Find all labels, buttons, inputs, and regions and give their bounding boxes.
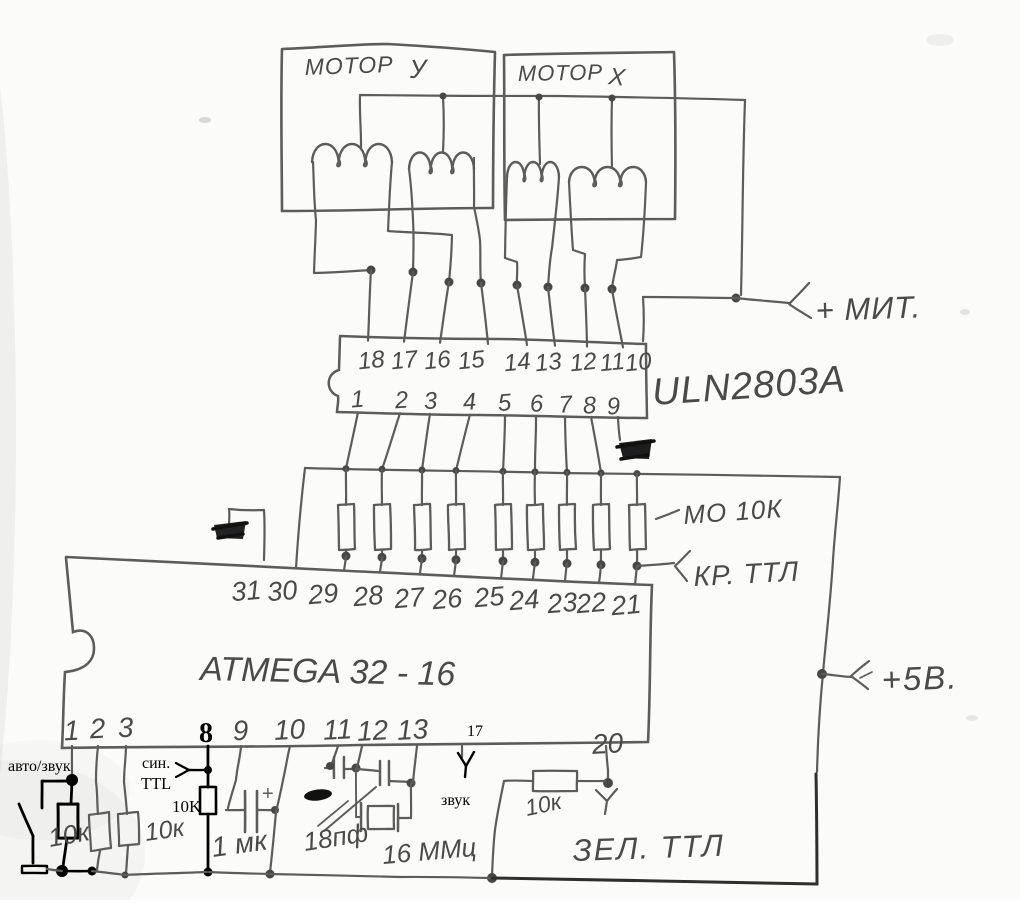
svg-text:27: 27 xyxy=(392,582,427,615)
svg-text:11: 11 xyxy=(322,713,353,745)
svg-text:ATMEGA 32 - 16: ATMEGA 32 - 16 xyxy=(198,650,456,693)
svg-text:18: 18 xyxy=(357,346,387,376)
svg-text:звук: звук xyxy=(441,792,470,809)
svg-text:ЗЕЛ. ТТЛ: ЗЕЛ. ТТЛ xyxy=(572,828,725,868)
svg-text:26: 26 xyxy=(430,583,465,616)
svg-text:31: 31 xyxy=(230,575,263,608)
svg-text:10к: 10к xyxy=(143,814,187,847)
svg-text:16: 16 xyxy=(423,346,453,376)
svg-text:11: 11 xyxy=(598,348,626,377)
svg-text:3: 3 xyxy=(117,712,135,744)
svg-text:МОТОР: МОТОР xyxy=(304,51,394,80)
svg-text:25: 25 xyxy=(472,581,507,614)
svg-text:авто/звук: авто/звук xyxy=(8,758,71,775)
svg-text:2: 2 xyxy=(88,713,107,745)
svg-text:+: + xyxy=(262,783,274,805)
svg-text:10: 10 xyxy=(624,348,654,378)
svg-text:13: 13 xyxy=(534,348,564,378)
svg-text:17: 17 xyxy=(390,346,421,376)
svg-text:15: 15 xyxy=(457,346,487,376)
svg-text:14: 14 xyxy=(503,348,532,378)
svg-text:12: 12 xyxy=(356,714,389,747)
svg-text:21: 21 xyxy=(609,589,643,622)
svg-text:1: 1 xyxy=(350,386,365,414)
svg-text:4: 4 xyxy=(462,388,477,416)
svg-text:TTL: TTL xyxy=(141,774,171,793)
svg-text:5: 5 xyxy=(497,389,513,417)
svg-text:1: 1 xyxy=(63,715,80,747)
svg-text:9: 9 xyxy=(232,715,249,747)
svg-text:28: 28 xyxy=(351,580,385,613)
svg-text:29: 29 xyxy=(306,578,340,611)
svg-text:10K: 10K xyxy=(172,797,202,816)
svg-text:13: 13 xyxy=(396,713,429,746)
svg-text:30: 30 xyxy=(266,575,299,608)
svg-text:3: 3 xyxy=(423,387,439,415)
svg-text:МОТОР: МОТОР xyxy=(518,60,604,86)
svg-text:10: 10 xyxy=(273,713,306,746)
svg-text:+ МИТ.: + МИТ. xyxy=(815,289,922,328)
svg-text:+5В.: +5В. xyxy=(881,658,959,698)
svg-text:24: 24 xyxy=(507,584,541,617)
svg-text:12: 12 xyxy=(569,348,598,378)
svg-text:23: 23 xyxy=(545,587,579,620)
svg-text:син.: син. xyxy=(142,755,170,772)
svg-text:2: 2 xyxy=(393,386,409,414)
svg-text:КР. ТТЛ: КР. ТТЛ xyxy=(693,555,800,591)
svg-text:8: 8 xyxy=(582,392,598,420)
svg-text:8: 8 xyxy=(199,718,213,749)
svg-text:22: 22 xyxy=(574,587,608,620)
svg-text:17: 17 xyxy=(467,723,483,740)
svg-text:6: 6 xyxy=(529,390,545,418)
